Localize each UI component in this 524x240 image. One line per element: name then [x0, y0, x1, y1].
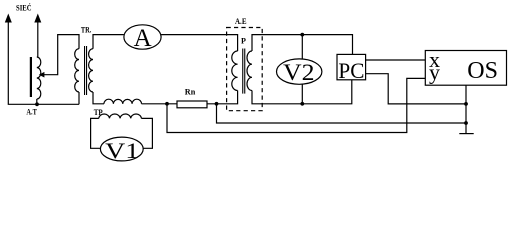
- svg-text:A.E: A.E: [235, 17, 247, 26]
- svg-text:TP: TP: [94, 108, 103, 117]
- svg-text:P: P: [241, 37, 246, 46]
- svg-text:A.T: A.T: [26, 107, 37, 116]
- svg-text:V1: V1: [105, 138, 139, 163]
- svg-text:TR.: TR.: [81, 25, 92, 34]
- svg-text:V2: V2: [283, 60, 315, 85]
- svg-text:OS: OS: [467, 58, 498, 84]
- svg-text:Rn: Rn: [185, 88, 196, 97]
- svg-text:y: y: [429, 60, 440, 85]
- svg-text:PC: PC: [338, 58, 364, 83]
- svg-text:SIEĆ: SIEĆ: [16, 2, 32, 12]
- svg-text:A: A: [134, 25, 152, 52]
